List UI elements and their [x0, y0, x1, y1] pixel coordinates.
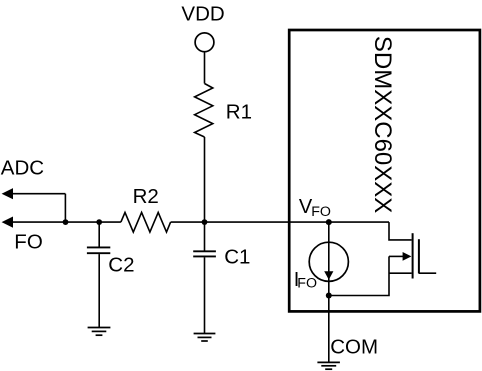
- ADC arrow: [2, 188, 66, 199]
- wire VDD to R1: [204, 52, 206, 84]
- junction C2: [96, 219, 102, 225]
- svg-text:R1: R1: [226, 101, 252, 124]
- wire source stub: [389, 272, 412, 274]
- svg-text:C2: C2: [108, 254, 134, 277]
- bulk arrow: [389, 252, 411, 261]
- svg-text:ADC: ADC: [1, 157, 44, 180]
- IC box U1: [289, 30, 480, 311]
- capacitor C2: [87, 222, 110, 327]
- wire FO to R2: [12, 221, 121, 223]
- current source I_FO: [309, 222, 348, 295]
- junction ADC/FO: [63, 219, 69, 225]
- wire gate stub: [419, 272, 437, 274]
- ground (C2): [88, 328, 111, 336]
- junction C1: [202, 219, 208, 225]
- svg-text:R2: R2: [133, 185, 159, 208]
- junction source node: [326, 293, 332, 299]
- I_FO value label: [294, 269, 317, 292]
- svg-text:VDD: VDD: [181, 2, 224, 25]
- capacitor C1: [193, 222, 216, 333]
- wire gate routing: [389, 222, 412, 240]
- wire ADC branch down: [64, 194, 66, 222]
- wire R2 to V_FO node: [171, 221, 389, 223]
- svg-text:FO: FO: [297, 276, 317, 292]
- transistor Q1 channel bar: [412, 233, 414, 278]
- ground (COM): [317, 362, 340, 369]
- node V_FO label: [299, 196, 331, 220]
- wire COM: [328, 296, 330, 363]
- svg-text:FO: FO: [311, 204, 331, 220]
- ground (C1): [194, 334, 216, 342]
- FO arrow: [2, 217, 13, 228]
- resistor R2: [121, 212, 171, 232]
- resistor R1: [195, 84, 213, 138]
- VDD terminal circle: [195, 33, 214, 52]
- svg-text:COM: COM: [330, 336, 378, 359]
- svg-text:C1: C1: [224, 245, 250, 268]
- svg-text:SDMXXC60XXX: SDMXXC60XXX: [369, 36, 396, 213]
- wire source routing: [329, 256, 389, 295]
- transistor Q1 gate bar: [418, 239, 420, 273]
- junction V_FO: [326, 219, 332, 225]
- wire R1 to node: [204, 137, 206, 222]
- svg-text:FO: FO: [14, 230, 42, 253]
